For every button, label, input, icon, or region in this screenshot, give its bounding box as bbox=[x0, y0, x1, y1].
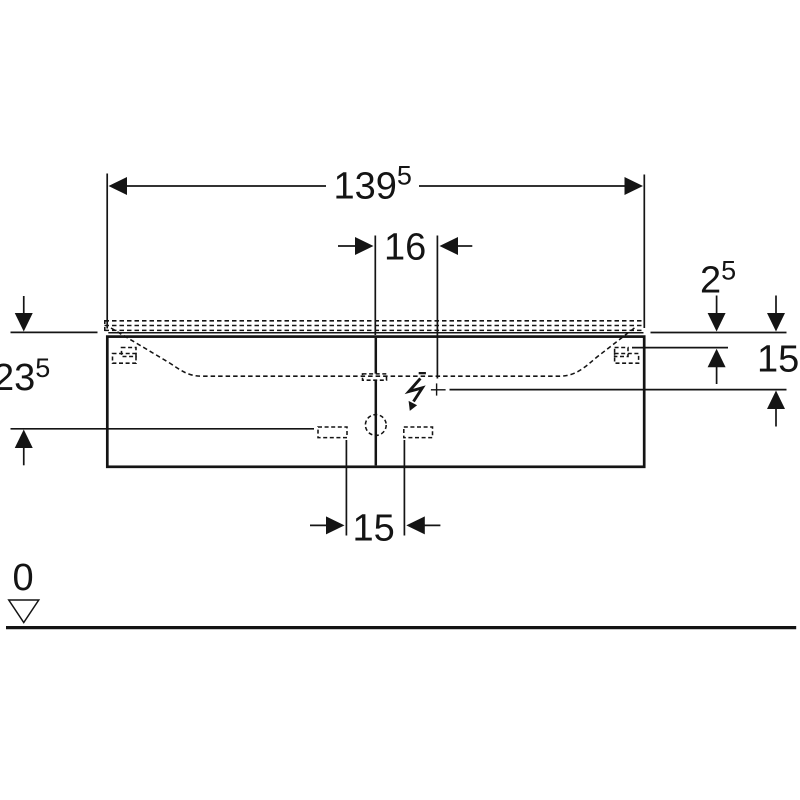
dimension 139.5 line left segment bbox=[112, 185, 326, 187]
mounting bracket left inner bbox=[113, 354, 137, 364]
dimension 15 bottom extension line right bbox=[403, 440, 405, 536]
dimension 16 extension line right bbox=[436, 236, 438, 379]
countertop dashed middle line bbox=[105, 325, 642, 327]
leader line E knockout level left bbox=[11, 428, 315, 430]
leader line B bracket level right bbox=[632, 347, 728, 349]
dimension 15 bottom arrow right bbox=[424, 524, 440, 526]
dimension 23.5 up arrow bbox=[23, 448, 25, 466]
electrical connection plus mark bbox=[431, 389, 446, 391]
svg-text:15: 15 bbox=[757, 339, 799, 381]
dimension 2.5 up arrow bbox=[716, 367, 718, 385]
dimension 139.5 line right segment bbox=[419, 185, 640, 187]
countertop solid underside line bbox=[108, 332, 643, 334]
floor level triangle bbox=[9, 600, 39, 623]
svg-text:15: 15 bbox=[353, 508, 395, 550]
knockout rectangle right bbox=[404, 427, 433, 438]
dimension 2.5 down arrow bbox=[716, 296, 718, 315]
dimension 23.5 down arrow bbox=[23, 296, 25, 314]
countertop dashed bottom line bbox=[105, 329, 642, 331]
svg-text:0: 0 bbox=[13, 557, 34, 599]
dimension 15 bottom arrow left bbox=[310, 524, 328, 526]
floor line bbox=[6, 626, 796, 629]
divider knockout dashed rect bbox=[363, 374, 387, 380]
dimension 15 right up arrow bbox=[775, 409, 777, 427]
cabinet outline bbox=[107, 337, 644, 467]
countertop dashed left end bbox=[104, 320, 106, 331]
dimension 16 extension line left bbox=[374, 236, 376, 336]
dimension 139.5 arrowhead right bbox=[625, 177, 644, 195]
svg-text:16: 16 bbox=[384, 227, 426, 269]
dimension 15 right down arrow bbox=[775, 296, 777, 314]
leader line A countertop bottom right bbox=[651, 332, 787, 334]
cabinet door divider upper bbox=[375, 338, 378, 374]
dimension 16 arrow right bbox=[457, 245, 472, 247]
mounting bracket left outer bbox=[122, 348, 137, 357]
dimension 139.5 extension line left bbox=[106, 174, 108, 329]
dimension 16 arrow left bbox=[338, 245, 356, 247]
knockout rectangle left bbox=[318, 427, 347, 438]
mounting bracket right inner bbox=[615, 354, 639, 364]
washbasin underside dashed outline bbox=[111, 328, 635, 377]
knockout circle center bbox=[365, 415, 386, 436]
electrical lightning bolt bbox=[409, 372, 426, 411]
dimension 139.5 extension line right bbox=[643, 175, 645, 329]
countertop dashed top line bbox=[105, 320, 642, 322]
mounting bracket right outer bbox=[615, 348, 628, 357]
leader line D countertop level left bbox=[11, 331, 98, 333]
cabinet door divider lower bbox=[375, 381, 378, 466]
leader line C electrical level bbox=[450, 389, 787, 391]
dimension 15 bottom extension line left bbox=[345, 440, 347, 536]
dimension 139.5 arrowhead left bbox=[109, 177, 128, 195]
